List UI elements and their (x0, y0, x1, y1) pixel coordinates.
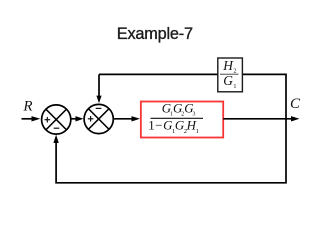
summing junction S1 (42, 105, 71, 134)
wire arrow up into S1 (53, 135, 58, 143)
wire arrow S2 to block G (114, 116, 140, 121)
summing junction S2 (84, 104, 113, 133)
S1 plus sign (45, 117, 51, 123)
svg-text:G1G2G3: G1G2G3 (162, 102, 196, 118)
svg-text:R: R (22, 98, 32, 114)
block G: G1G2G3/(1-G1G2H1) (141, 102, 223, 138)
wire feedback loop path: top line, takeoff vertical, bottom line (56, 74, 286, 182)
S1 minus sign (54, 127, 60, 129)
block H: H2/G1 (218, 58, 243, 92)
svg-text:Example-7: Example-7 (117, 25, 193, 43)
wire block G output to node C with arrow (223, 116, 299, 121)
wire arrow S1 to S2 (71, 116, 83, 121)
svg-text:C: C (290, 96, 301, 112)
wire input arrow into summing junction S1 (22, 116, 41, 121)
S2 plus sign (88, 116, 94, 122)
wire arrow down into S2 (96, 74, 101, 103)
S2 minus sign (96, 107, 102, 109)
